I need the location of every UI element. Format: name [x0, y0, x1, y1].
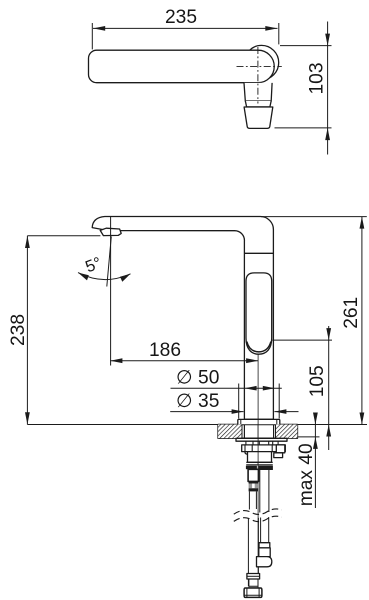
svg-text:∅ 50: ∅ 50	[176, 368, 219, 389]
dim 238: dimension line	[26, 236, 28, 425]
dim 235: arrowheads	[93, 26, 105, 31]
break squiggle lower	[234, 516, 282, 521]
front view: aerator outlet	[100, 228, 121, 235]
countertop: hatch right	[276, 425, 298, 439]
left tube: thread band	[249, 481, 259, 483]
valve body below bracket	[248, 452, 272, 463]
dim 186: dimension line	[110, 360, 258, 362]
top view: handle neck	[244, 83, 272, 101]
dim 238: top extension line (outlet level)	[27, 235, 100, 237]
dim 238: arrowheads	[25, 236, 30, 248]
angle note 5deg: arc with arrows	[78, 273, 131, 280]
left hose rings	[247, 574, 260, 580]
right hose ring	[259, 543, 270, 548]
dim 186: arrowheads	[110, 358, 122, 363]
right block below bracket	[274, 453, 283, 458]
dim 105: top extension line	[272, 339, 332, 341]
svg-text:max 40: max 40	[296, 443, 317, 506]
top view: center crosshair dashed	[237, 66, 282, 68]
centerline overlay through flange and bracket	[257, 420, 259, 466]
svg-text:103: 103	[306, 62, 327, 94]
left rod below	[248, 491, 250, 509]
right tube: dark band	[259, 466, 273, 470]
svg-text:238: 238	[8, 314, 29, 346]
dim 261: arrowheads (inside)	[360, 217, 365, 229]
svg-text:105: 105	[307, 365, 328, 397]
left hose below break	[247, 519, 249, 587]
countertop: hole edges	[241, 425, 243, 439]
top view: spout (rounded bar)	[89, 50, 275, 82]
dim 103: arrowheads	[325, 34, 330, 46]
right hose block	[259, 548, 270, 557]
front view: handle (pill)	[246, 273, 272, 354]
angle note 5deg: tilted line	[107, 237, 112, 287]
dim max40: arrowheads (outside)	[313, 413, 318, 425]
dim max40: dimension line	[314, 414, 316, 509]
front view: body seam line	[244, 252, 273, 254]
svg-text:186: 186	[149, 340, 181, 361]
break squiggle upper	[234, 509, 282, 514]
bottom nut	[244, 588, 262, 597]
mounting bracket plate with ears	[242, 445, 286, 452]
countertop: hatch left	[218, 425, 242, 439]
right hose below break	[260, 518, 262, 544]
front view: handle bottom inner shading arc	[247, 342, 271, 352]
countertop: top extension line full width	[27, 424, 367, 426]
dim max40: bottom extension line	[297, 436, 319, 438]
top view: handle collar band	[245, 101, 271, 107]
angle note 5deg: vertical reference line	[110, 217, 112, 366]
top view: body circle	[244, 45, 278, 79]
dim D50: arrowheads (outward at column edges)	[245, 386, 257, 391]
shank through countertop	[243, 425, 245, 439]
centerline of body (front view)	[257, 355, 259, 597]
left tube cartridge block	[248, 469, 259, 481]
svg-text:∅ 35: ∅ 35	[176, 391, 219, 412]
dim D35: leader line + inward arrows	[170, 411, 243, 413]
tube stubs between washer and bracket	[246, 441, 278, 445]
dim 103: extension lines	[280, 45, 332, 47]
right hose elbow fitting	[257, 557, 272, 567]
bracket right ear	[276, 445, 285, 453]
left tube: dark band	[246, 466, 257, 470]
front view: faucet outline	[92, 217, 273, 420]
dim D50: leader/dim line	[171, 387, 282, 389]
dim 105: dimension line	[328, 326, 330, 450]
right tube down to break	[259, 470, 261, 513]
dim 261: top extension line	[261, 216, 367, 218]
left lug below bracket	[245, 452, 254, 455]
dim 261: dimension line	[361, 217, 363, 425]
dim 235: extension lines	[91, 23, 93, 49]
dim D50: extension lines	[238, 384, 240, 419]
flange (D50 base plate)	[238, 419, 280, 424]
top view: handle grip	[244, 107, 273, 128]
bracket inner division lines	[245, 445, 272, 452]
dim 105: arrowheads (outside)	[326, 328, 331, 340]
dim 103: dimension line	[327, 22, 329, 155]
washer under countertop	[236, 438, 287, 441]
svg-text:235: 235	[165, 7, 197, 28]
dim 235: dimension line	[93, 27, 278, 29]
svg-text:261: 261	[341, 297, 362, 329]
countertop: slab	[218, 425, 297, 439]
flange tick marks	[240, 419, 242, 424]
body shoulder lines	[246, 461, 273, 463]
left hose neck	[249, 579, 258, 586]
